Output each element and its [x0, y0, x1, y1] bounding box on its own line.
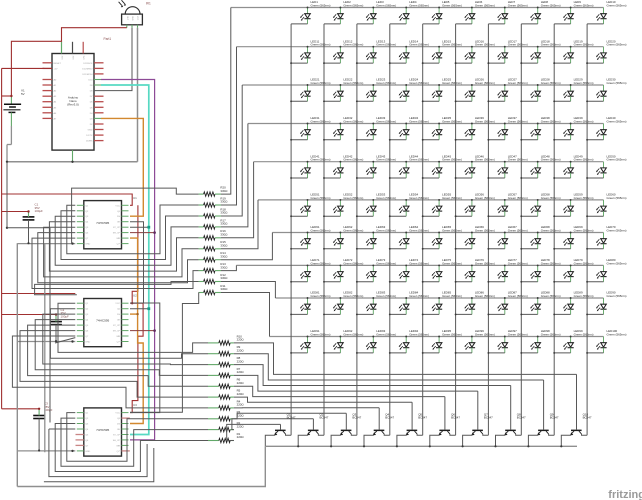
LED48 Green (565nm) — [521, 154, 560, 178]
LED39 Green (565nm) — [554, 116, 593, 140]
wire R2 to Q2 base — [232, 419, 314, 430]
LED2 Green (565nm) — [324, 0, 363, 24]
svg-text:330Ω: 330Ω — [220, 254, 228, 258]
wire U2 Q5 to R6 — [28, 325, 208, 386]
IR1 pin2 stub — [131, 25, 133, 28]
svg-text:D12/MISO: D12/MISO — [82, 68, 93, 70]
LED26 Green (565nm) — [456, 78, 495, 102]
wire R18 to row 3 — [221, 85, 242, 216]
LED28 Green (565nm) — [521, 78, 560, 102]
wire U1 Q3 to R17 — [55, 216, 198, 265]
wire GND left rail — [16, 243, 18, 486]
wire column 7 bus — [487, 24, 489, 435]
svg-text:Green (565nm): Green (565nm) — [442, 294, 462, 298]
resistor R16 330 — [199, 229, 229, 240]
svg-text:Green (565nm): Green (565nm) — [574, 158, 594, 162]
LED60 Green (565nm) — [587, 193, 626, 217]
LED95 Green (565nm) — [423, 329, 462, 353]
LED36 Green (565nm) — [456, 116, 495, 140]
IC U2 74HC595 body — [77, 299, 129, 347]
svg-text:330Ω: 330Ω — [220, 243, 228, 247]
junction cyan U2 — [147, 307, 150, 310]
wire U2 Q4 to R7 — [35, 320, 208, 376]
svg-text:Green (565nm): Green (565nm) — [343, 228, 363, 232]
svg-text:Green (565nm): Green (565nm) — [475, 119, 495, 123]
svg-text:Green (565nm): Green (565nm) — [376, 119, 396, 123]
junction C3 plus — [38, 408, 40, 410]
wire GND chain vertical B — [49, 228, 51, 423]
wire R4 to Q4 base — [234, 407, 379, 409]
wire column 2 bus — [323, 24, 325, 435]
svg-text:Green (565nm): Green (565nm) — [607, 294, 627, 298]
wire R1 to Q1 base — [227, 424, 281, 440]
svg-text:Green (565nm): Green (565nm) — [343, 43, 363, 47]
svg-text:Green (565nm): Green (565nm) — [311, 43, 331, 47]
LED41 Green (565nm) — [291, 154, 330, 178]
junction U1 GND — [71, 242, 73, 244]
LED85 Green (565nm) — [423, 291, 462, 315]
svg-text:Green (565nm): Green (565nm) — [607, 228, 627, 232]
LED89 Green (565nm) — [554, 291, 593, 315]
svg-text:Green (565nm): Green (565nm) — [343, 261, 363, 265]
svg-text:Green (565nm): Green (565nm) — [574, 119, 594, 123]
svg-text:74HC595: 74HC595 — [96, 221, 109, 225]
svg-text:Green (565nm): Green (565nm) — [442, 3, 462, 7]
svg-text:Green (565nm): Green (565nm) — [409, 119, 429, 123]
svg-text:Green (565nm): Green (565nm) — [376, 81, 396, 85]
wire VCC chain U1-U2 — [130, 205, 138, 303]
wire U1 top wrap to R20 — [72, 188, 199, 244]
LED57 Green (565nm) — [488, 193, 527, 217]
wire U3 GND — [17, 450, 75, 452]
LED27 Green (565nm) — [488, 78, 527, 102]
svg-text:Green (565nm): Green (565nm) — [607, 119, 627, 123]
svg-text:Q7': Q7' — [117, 451, 121, 453]
svg-text:Green (565nm): Green (565nm) — [311, 228, 331, 232]
svg-text:330Ω: 330Ω — [220, 200, 228, 204]
svg-text:100µF: 100µF — [35, 209, 43, 213]
svg-text:220Ω: 220Ω — [237, 414, 245, 418]
wire column 3 bus — [356, 24, 358, 435]
resistor R17 330 — [199, 218, 229, 229]
svg-text:Green (565nm): Green (565nm) — [409, 43, 429, 47]
junction battery plus — [10, 95, 12, 97]
wire GND top horizontal — [7, 161, 138, 163]
wire U1 Q5 to R15 — [44, 227, 199, 277]
svg-text:Green (565nm): Green (565nm) — [475, 228, 495, 232]
junction C2 minus — [55, 340, 57, 342]
resistor R4 220 — [208, 399, 244, 410]
svg-text:Green (565nm): Green (565nm) — [541, 43, 561, 47]
wire U2 DS tap — [130, 330, 155, 332]
svg-text:Green (565nm): Green (565nm) — [574, 261, 594, 265]
LED75 Green (565nm) — [423, 258, 462, 282]
svg-text:330Ω: 330Ω — [220, 211, 228, 215]
LED8 Green (565nm) — [521, 0, 560, 24]
wire U3 Q3 to R1 — [55, 424, 208, 472]
LED84 Green (565nm) — [390, 291, 429, 315]
svg-text:GND: GND — [88, 130, 93, 132]
svg-text:D13/SCK: D13/SCK — [83, 63, 93, 65]
battery V1 5V — [3, 89, 25, 162]
svg-text:Green (565nm): Green (565nm) — [574, 196, 594, 200]
wire VCC chain U2-U3 — [130, 303, 143, 412]
ground bus under transistors — [265, 445, 577, 447]
capacitor C2 100uF — [50, 308, 69, 341]
Arduino top pins — [61, 42, 85, 60]
svg-text:Green (565nm): Green (565nm) — [574, 294, 594, 298]
LED61 Green (565nm) — [291, 225, 330, 249]
svg-text:Green (565nm): Green (565nm) — [475, 294, 495, 298]
junction orange dot U2 — [136, 313, 138, 315]
svg-text:Green (565nm): Green (565nm) — [343, 3, 363, 7]
svg-text:Green (565nm): Green (565nm) — [508, 261, 528, 265]
LED7 Green (565nm) — [488, 0, 527, 24]
svg-text:+5V: +5V — [54, 68, 58, 70]
wire U1 Q1 to R19 — [67, 205, 199, 254]
LED14 Green (565nm) — [390, 39, 429, 63]
ground bus junctions — [297, 445, 562, 447]
svg-text:Part1: Part1 — [104, 37, 112, 41]
svg-text:DS: DS — [117, 314, 121, 316]
svg-text:330Ω: 330Ω — [220, 222, 228, 226]
wire R20 to row 1 — [221, 8, 231, 195]
LED63 Green (565nm) — [357, 225, 396, 249]
transistor Q7 BC547 — [463, 391, 494, 446]
svg-text:GND: GND — [85, 244, 90, 246]
svg-text:RESET: RESET — [54, 63, 62, 65]
wire row 10 bus — [270, 336, 604, 338]
wire R15 to row 6 — [221, 200, 258, 249]
resistor R5 220 — [208, 389, 244, 400]
LED96 Green (565nm) — [456, 329, 495, 353]
wire row 7 bus — [272, 232, 603, 234]
svg-text:Green (565nm): Green (565nm) — [343, 196, 363, 200]
svg-text:220Ω: 220Ω — [237, 381, 245, 385]
svg-text:Q7': Q7' — [117, 342, 121, 344]
wire U2 Q1 to R10 — [58, 303, 208, 352]
resistor R3 220 — [208, 410, 244, 421]
wire column 5 bus — [422, 24, 424, 435]
wire row 3 bus — [242, 84, 603, 86]
transistor Q2 BC547 — [298, 412, 329, 446]
svg-text:Green (565nm): Green (565nm) — [311, 119, 331, 123]
wire latch cyan — [101, 85, 149, 435]
svg-text:Green (565nm): Green (565nm) — [442, 196, 462, 200]
LED86 Green (565nm) — [456, 291, 495, 315]
resistor R6 220 — [208, 378, 244, 389]
svg-text:Green (565nm): Green (565nm) — [343, 81, 363, 85]
wire 5V rail to Arduino +5V — [2, 67, 45, 69]
LED45 Green (565nm) — [423, 154, 462, 178]
wire diagonal near U2 — [55, 338, 75, 343]
Arduino bottom GND pin — [72, 150, 74, 162]
LED42 Green (565nm) — [324, 154, 363, 178]
wire GND left drop — [6, 162, 8, 228]
svg-text:MR: MR — [117, 445, 121, 447]
svg-text:(Rev3.0): (Rev3.0) — [67, 103, 79, 107]
svg-text:Green (565nm): Green (565nm) — [376, 158, 396, 162]
svg-text:ST_CP: ST_CP — [113, 227, 121, 229]
wire R19 to row 2 — [221, 47, 237, 205]
svg-text:MR: MR — [117, 336, 121, 338]
LED71 Green (565nm) — [291, 258, 330, 282]
wire U1 Q2 to R18 — [61, 211, 199, 260]
svg-text:Green (565nm): Green (565nm) — [311, 332, 331, 336]
svg-text:Q7': Q7' — [117, 244, 121, 246]
LED59 Green (565nm) — [554, 193, 593, 217]
svg-text:BC547: BC547 — [352, 416, 361, 420]
junction cyan U1 — [147, 226, 150, 229]
svg-text:Green (565nm): Green (565nm) — [574, 228, 594, 232]
LED83 Green (565nm) — [357, 291, 396, 315]
wire U3 Q2 to R2 — [61, 418, 208, 466]
svg-text:330Ω: 330Ω — [220, 287, 228, 291]
svg-text:330Ω: 330Ω — [220, 276, 228, 280]
svg-text:U2: U2 — [133, 294, 137, 298]
wire clock orange chain — [130, 238, 143, 423]
LED10 Green (565nm) — [587, 0, 626, 24]
LED30 Green (565nm) — [587, 78, 626, 102]
LED12 Green (565nm) — [324, 39, 363, 63]
junction Arduino GND — [71, 161, 73, 163]
wire GND bottom horizontal — [17, 446, 265, 486]
wire column 6 bus — [455, 24, 457, 435]
IR1 pin2 wire to Arduino D8 — [94, 28, 132, 91]
LED43 Green (565nm) — [357, 154, 396, 178]
wire R13 to row 8 — [221, 265, 236, 270]
svg-text:Green (565nm): Green (565nm) — [541, 228, 561, 232]
LED5 Green (565nm) — [423, 0, 462, 24]
IR1 pin1 lead — [126, 25, 128, 28]
svg-text:Green (565nm): Green (565nm) — [376, 294, 396, 298]
svg-text:GND: GND — [85, 342, 90, 344]
LED38 Green (565nm) — [521, 116, 560, 140]
wire R16 to row 5 — [221, 162, 254, 238]
svg-text:Green (565nm): Green (565nm) — [343, 119, 363, 123]
LED3 Green (565nm) — [357, 0, 396, 24]
wire clock orange — [101, 118, 143, 216]
svg-text:220Ω: 220Ω — [237, 403, 245, 407]
LED55 Green (565nm) — [423, 193, 462, 217]
svg-text:Green (565nm): Green (565nm) — [541, 196, 561, 200]
IC U3 74HC595 body — [76, 408, 130, 456]
wire R7 to Q7 base — [234, 375, 478, 391]
wire row 2 bus — [237, 46, 604, 48]
svg-text:Green (565nm): Green (565nm) — [409, 294, 429, 298]
svg-text:Green (565nm): Green (565nm) — [475, 158, 495, 162]
svg-text:Green (565nm): Green (565nm) — [376, 196, 396, 200]
resistor R11 330 — [199, 284, 229, 295]
transistor Q3 BC547 — [331, 412, 362, 446]
wire data purple — [101, 80, 155, 440]
svg-text:Green (565nm): Green (565nm) — [475, 3, 495, 7]
svg-text:220Ω: 220Ω — [237, 359, 245, 363]
LED70 Green (565nm) — [587, 225, 626, 249]
LED16 Green (565nm) — [456, 39, 495, 63]
svg-text:Green (565nm): Green (565nm) — [409, 196, 429, 200]
wire VCC rail to U1 — [2, 194, 133, 205]
LED97 Green (565nm) — [488, 329, 527, 353]
svg-text:DS: DS — [117, 424, 121, 426]
junction purple U2 — [153, 329, 156, 332]
resistor R13 330 — [199, 262, 229, 273]
resistor R9 220 — [208, 345, 244, 356]
svg-text:Green (565nm): Green (565nm) — [541, 294, 561, 298]
resistor R7 220 — [208, 367, 244, 378]
transistor Q8 BC547 — [496, 386, 527, 447]
svg-text:Green (565nm): Green (565nm) — [475, 196, 495, 200]
svg-text:BC547: BC547 — [484, 416, 493, 420]
LED87 Green (565nm) — [488, 291, 527, 315]
wire 5V Arduino pin1 to IR1 — [62, 28, 127, 42]
LED62 Green (565nm) — [324, 225, 363, 249]
svg-text:ST_CP: ST_CP — [113, 435, 121, 437]
svg-text:BC547: BC547 — [517, 416, 526, 420]
svg-text:Green (565nm): Green (565nm) — [343, 294, 363, 298]
LED99 Green (565nm) — [554, 329, 593, 353]
svg-text:Green (565nm): Green (565nm) — [311, 81, 331, 85]
junction orange U2 tap — [130, 313, 138, 315]
svg-text:SH_CP: SH_CP — [113, 331, 121, 333]
LED77 Green (565nm) — [488, 258, 527, 282]
svg-text:Green (565nm): Green (565nm) — [574, 332, 594, 336]
wire column 10 bus — [586, 24, 588, 435]
wire U3 wrap extra 1 — [49, 428, 75, 430]
LED100 Green (565nm) — [587, 329, 626, 353]
svg-text:Green (565nm): Green (565nm) — [409, 261, 429, 265]
junction C1 minus — [27, 242, 29, 244]
wire R11 hook to U3 — [130, 293, 199, 413]
LED88 Green (565nm) — [521, 291, 560, 315]
wire 5V battery to Arduino top — [11, 41, 61, 96]
transistor Q9 BC547 — [528, 380, 559, 446]
svg-text:Green (565nm): Green (565nm) — [541, 3, 561, 7]
svg-text:Green (565nm): Green (565nm) — [409, 158, 429, 162]
wire U3 wrap extra 2 — [44, 448, 154, 482]
LED46 Green (565nm) — [456, 154, 495, 178]
LED58 Green (565nm) — [521, 193, 560, 217]
svg-text:Green (565nm): Green (565nm) — [475, 261, 495, 265]
junction GND 227 — [6, 227, 8, 229]
svg-text:Green (565nm): Green (565nm) — [508, 81, 528, 85]
svg-text:Green (565nm): Green (565nm) — [607, 196, 627, 200]
LED56 Green (565nm) — [456, 193, 495, 217]
svg-text:Green (565nm): Green (565nm) — [343, 332, 363, 336]
svg-text:Green (565nm): Green (565nm) — [442, 81, 462, 85]
wire U1 Q4 to R16 — [49, 222, 198, 271]
wire chain U2 Q7 to U3 — [130, 303, 160, 413]
LED23 Green (565nm) — [357, 78, 396, 102]
LED76 Green (565nm) — [456, 258, 495, 282]
svg-text:74HC595: 74HC595 — [96, 428, 109, 432]
svg-text:Green (565nm): Green (565nm) — [607, 158, 627, 162]
junction purple U1 — [153, 231, 156, 234]
svg-text:BC547: BC547 — [451, 416, 460, 420]
LED37 Green (565nm) — [488, 116, 527, 140]
capacitor C1 100uF — [23, 203, 43, 244]
wire 5V rail to C3 — [2, 408, 40, 410]
svg-text:5V: 5V — [21, 92, 25, 96]
svg-text:Green (565nm): Green (565nm) — [376, 332, 396, 336]
svg-text:Green (565nm): Green (565nm) — [607, 43, 627, 47]
junction U2 VCC — [131, 302, 133, 304]
Arduino right pins D0-D13 — [82, 63, 103, 143]
LED34 Green (565nm) — [390, 116, 429, 140]
LED73 Green (565nm) — [357, 258, 396, 282]
svg-text:Green (565nm): Green (565nm) — [574, 81, 594, 85]
svg-text:SH_CP: SH_CP — [113, 233, 121, 235]
svg-text:Green (565nm): Green (565nm) — [311, 294, 331, 298]
svg-text:220Ω: 220Ω — [237, 392, 245, 396]
IC U1 74HC595 body — [77, 201, 129, 249]
LED69 Green (565nm) — [554, 225, 593, 249]
wire row 1 bus — [231, 7, 604, 9]
wire R6 to Q6 base — [234, 386, 445, 396]
svg-text:IR1: IR1 — [146, 2, 151, 6]
wire R8 to Q8 base — [234, 365, 511, 386]
resistor R14 330 — [199, 251, 229, 262]
wire U3 wrap extra 1b — [49, 429, 147, 477]
svg-text:GND: GND — [131, 16, 133, 21]
svg-text:330Ω: 330Ω — [220, 189, 228, 193]
svg-text:Green (565nm): Green (565nm) — [508, 43, 528, 47]
LED90 Green (565nm) — [587, 291, 626, 315]
LED67 Green (565nm) — [488, 225, 527, 249]
wire R14 to row 7 — [221, 233, 272, 260]
wire U2 GND — [17, 341, 75, 343]
LED19 Green (565nm) — [554, 39, 593, 63]
LED15 Green (565nm) — [423, 39, 462, 63]
resistor R20 330 — [199, 186, 229, 197]
resistor R10 220 — [208, 334, 244, 345]
svg-text:D0/RX: D0/RX — [86, 141, 93, 143]
wire U1 ST_CP tap — [130, 226, 149, 228]
svg-text:Green (565nm): Green (565nm) — [508, 158, 528, 162]
svg-text:BC547: BC547 — [583, 416, 592, 420]
svg-text:Green (565nm): Green (565nm) — [607, 3, 627, 7]
wire U1 DS tap — [130, 232, 155, 234]
capacitor C3 100uF — [33, 402, 52, 451]
svg-text:DS: DS — [117, 216, 121, 218]
LED53 Green (565nm) — [357, 193, 396, 217]
svg-text:VCC: VCC — [136, 16, 138, 21]
junction U3 GND — [71, 450, 73, 452]
svg-text:Green (565nm): Green (565nm) — [376, 228, 396, 232]
resistor R19 330 — [199, 196, 229, 207]
LED74 Green (565nm) — [390, 258, 429, 282]
svg-text:Green (565nm): Green (565nm) — [409, 3, 429, 7]
LED31 Green (565nm) — [291, 116, 330, 140]
transistor Q10 BC547 — [561, 374, 592, 446]
wire GND chain vertical A — [44, 243, 46, 452]
svg-text:Green (565nm): Green (565nm) — [607, 332, 627, 336]
svg-text:Green (565nm): Green (565nm) — [442, 119, 462, 123]
svg-text:330Ω: 330Ω — [220, 265, 228, 269]
svg-text:Green (565nm): Green (565nm) — [508, 332, 528, 336]
junction C2 plus — [55, 313, 57, 315]
LED32 Green (565nm) — [324, 116, 363, 140]
junction C1 plus — [27, 210, 29, 212]
wire R12 hook — [35, 282, 199, 295]
LED82 Green (565nm) — [324, 291, 363, 315]
wire U1 GND — [17, 243, 75, 245]
wire row 9 bus — [275, 297, 603, 299]
svg-text:BC547: BC547 — [385, 416, 394, 420]
resistor R1 220 — [208, 432, 244, 443]
svg-text:Green (565nm): Green (565nm) — [409, 332, 429, 336]
transistor Q5 BC547 — [397, 402, 428, 446]
